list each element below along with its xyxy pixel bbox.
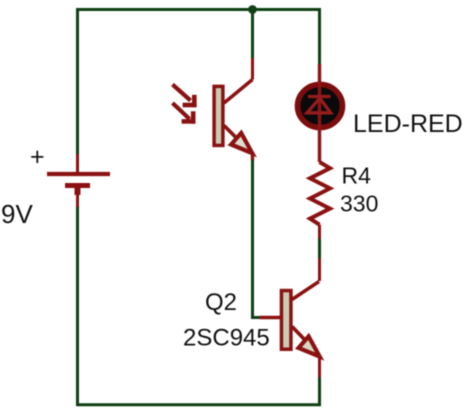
phototransistor emitter diagonal (224, 126, 238, 140)
diode cathode bar (308, 95, 331, 98)
light arrow 2 shaft (173, 103, 190, 119)
wire resistor to Q2 collector (318, 239, 321, 259)
wire battery negative pin (76, 194, 79, 207)
wire left vertical battery to bottom rail and bottom horizontal rail (78, 207, 320, 405)
wire phototransistor emitter pin (251, 153, 254, 161)
transistor Q2 collector diagonal (292, 282, 319, 300)
wire phototransistor emitter down to Q2 base (253, 160, 261, 318)
svg-text:2SC945: 2SC945 (183, 325, 270, 352)
wire battery positive pin (76, 154, 79, 172)
battery BAT1 short negative plate (65, 183, 90, 188)
svg-text:R4: R4 (342, 163, 372, 189)
transistor Q2 base bar (281, 291, 291, 350)
svg-text:9V: 9V (1, 199, 33, 229)
wire Q2 emitter pin (318, 357, 321, 378)
light arrow 1 shaft (173, 85, 191, 101)
transistor Q2 emitter diagonal (292, 327, 305, 341)
phototransistor collector diagonal (224, 80, 253, 104)
transistor Q2 base pin (260, 316, 281, 320)
svg-text:330: 330 (340, 191, 378, 217)
wire phototransistor collector pin (251, 58, 254, 80)
wire LED anode pin through body (318, 64, 321, 162)
light arrow 1 head vertical bar (192, 95, 197, 107)
wire top horizontal net VCC (78, 10, 320, 155)
wire collector to top node (251, 9, 254, 58)
battery BAT1 long positive plate (47, 172, 110, 176)
light arrow 1 head horizontal bar (183, 103, 197, 108)
diode D1 LED body circle (298, 84, 343, 127)
wire Q2 collector pin vertical (318, 258, 321, 281)
transistor Q2 emitter arrow (299, 336, 320, 356)
light arrow 2 head horizontal bar (182, 119, 196, 124)
diode triangle (307, 98, 331, 113)
svg-text:Q2: Q2 (205, 289, 237, 316)
svg-text:LED-RED: LED-RED (353, 110, 463, 138)
wire resistor bottom pin (318, 225, 321, 239)
battery negative stub (75, 186, 81, 196)
phototransistor base bar (214, 86, 223, 145)
resistor R4 zigzag (310, 162, 330, 225)
light arrow 2 head vertical bar (191, 111, 196, 123)
node junction dot (248, 5, 257, 14)
phototransistor emitter arrow (231, 133, 252, 153)
svg-text:+: + (30, 143, 45, 171)
